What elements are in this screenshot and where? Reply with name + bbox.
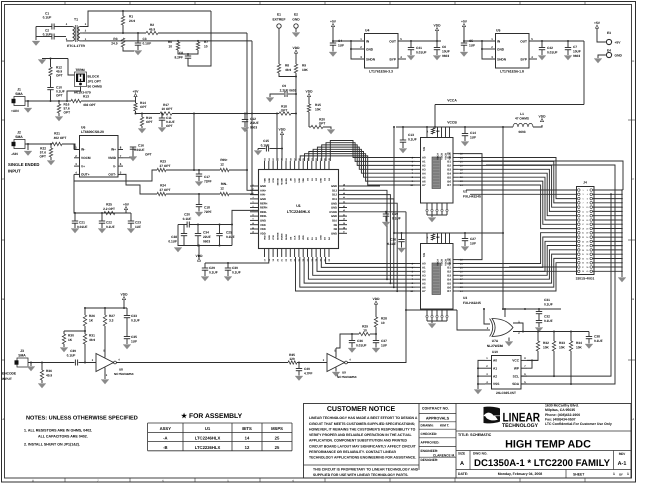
ground xyxy=(27,101,29,107)
svg-text:A0: A0 xyxy=(493,359,497,363)
wire VCCA from U5 xyxy=(583,41,585,105)
svg-text:LTC2246HLX: LTC2246HLX xyxy=(195,436,221,441)
svg-text:LTC2246HLX: LTC2246HLX xyxy=(287,210,311,214)
bus wires U1 top to U2 xyxy=(330,141,415,162)
wire J4 pin39 row xyxy=(505,270,577,272)
svg-text:50 OHMS: 50 OHMS xyxy=(88,85,103,89)
svg-text:VDD: VDD xyxy=(279,127,287,131)
wire mid rail xyxy=(136,113,161,115)
svg-text:24.9: 24.9 xyxy=(111,42,117,46)
svg-text:0.1UF: 0.1UF xyxy=(226,235,235,239)
svg-text:VDD: VDD xyxy=(264,178,267,183)
svg-text:25: 25 xyxy=(275,445,280,450)
svg-text:SMA: SMA xyxy=(18,353,26,357)
svg-text:23: 23 xyxy=(582,236,584,239)
svg-text:27: 27 xyxy=(582,245,584,248)
svg-text:38: 38 xyxy=(343,226,345,229)
svg-text:VDD: VDD xyxy=(264,235,267,240)
svg-text:0.01UF: 0.01UF xyxy=(134,148,145,152)
svg-text:1UF: 1UF xyxy=(470,242,476,246)
wire sense riser xyxy=(295,114,297,161)
svg-text:TECHNOLOGY APPLICATIONS ENGINE: TECHNOLOGY APPLICATIONS ENGINEERING FOR … xyxy=(309,456,416,460)
svg-text:U8: U8 xyxy=(119,368,123,372)
wire J4 pin3 row xyxy=(470,193,577,195)
svg-text:402 OPT: 402 OPT xyxy=(54,136,67,140)
svg-text:APPROVALS: APPROVALS xyxy=(426,417,450,421)
svg-text:VCCB: VCCB xyxy=(441,153,444,160)
svg-text:28: 28 xyxy=(586,245,588,248)
svg-text:0.1UF: 0.1UF xyxy=(594,339,603,343)
svg-text:10: 10 xyxy=(168,45,172,49)
svg-text:1K: 1K xyxy=(68,338,73,342)
svg-text:VMID: VMID xyxy=(108,156,117,160)
wire xyxy=(83,40,252,42)
wire vdd rail to xor xyxy=(503,308,561,310)
svg-text:U3: U3 xyxy=(463,296,467,300)
svg-text:OPT: OPT xyxy=(146,120,153,124)
ground xyxy=(564,56,572,61)
svg-text:SHDN: SHDN xyxy=(366,57,376,61)
wire U3 vcc rail xyxy=(394,232,503,234)
svg-text:46: 46 xyxy=(343,192,345,195)
ground xyxy=(372,348,380,353)
svg-text:C23: C23 xyxy=(135,221,141,225)
svg-text:+5V: +5V xyxy=(133,89,140,93)
wire xyxy=(464,40,495,42)
svg-text:24.9: 24.9 xyxy=(129,19,135,23)
svg-text:VCC: VCC xyxy=(512,359,519,363)
svg-text:1UF: 1UF xyxy=(338,44,344,48)
svg-text:0.1UF: 0.1UF xyxy=(544,303,553,307)
ground xyxy=(460,52,468,57)
svg-text:A: A xyxy=(2,418,4,421)
wire riser to U1 xyxy=(232,210,258,245)
svg-text:R27: R27 xyxy=(109,314,115,318)
LT logo xyxy=(484,407,501,424)
svg-text:12: 12 xyxy=(220,187,224,191)
svg-text:R23: R23 xyxy=(160,160,166,164)
svg-text:1UF: 1UF xyxy=(135,225,141,229)
svg-text:1UF: 1UF xyxy=(381,344,387,348)
svg-text:AIN+: AIN+ xyxy=(260,189,267,192)
svg-text:PERFORMANCE OR RELIABILITY. C: PERFORMANCE OR RELIABILITY. CONTACT LINE… xyxy=(309,450,397,454)
svg-text:24LC025-I/ST: 24LC025-I/ST xyxy=(496,391,516,395)
ground xyxy=(618,278,626,283)
svg-text:U5: U5 xyxy=(496,29,500,33)
svg-text:VDD: VDD xyxy=(302,235,305,240)
svg-text:27 OPT: 27 OPT xyxy=(160,188,171,192)
svg-text:IN-: IN- xyxy=(81,148,85,152)
svg-text:VDD: VDD xyxy=(539,114,547,118)
wire xyxy=(166,169,220,171)
U2 left pins A0-A7 xyxy=(415,157,420,159)
svg-text:ALL CAPACITORS ARE 0402.: ALL CAPACITORS ARE 0402. xyxy=(38,435,88,439)
svg-text:FXLH42245: FXLH42245 xyxy=(463,301,481,305)
svg-text:RIN-: RIN- xyxy=(221,182,228,186)
svg-text:C26: C26 xyxy=(390,238,396,242)
svg-text:26: 26 xyxy=(586,240,588,243)
wire trunk2 from T1 xyxy=(251,41,253,194)
svg-text:8.2PF: 8.2PF xyxy=(174,56,183,60)
svg-text:GND: GND xyxy=(298,235,301,240)
svg-text:MODE: MODE xyxy=(281,233,284,240)
svg-text:OPT: OPT xyxy=(145,153,152,157)
svg-text:GND: GND xyxy=(331,232,337,235)
svg-text:T1: T1 xyxy=(74,18,78,22)
svg-text:C9: C9 xyxy=(282,84,286,88)
svg-text:INPUT: INPUT xyxy=(2,377,12,381)
svg-text:VCCB: VCCB xyxy=(441,259,444,266)
svg-text:39: 39 xyxy=(343,222,345,225)
svg-text:C18: C18 xyxy=(204,206,210,210)
svg-text:38: 38 xyxy=(586,266,588,269)
ground xyxy=(332,372,340,377)
ground xyxy=(60,348,68,353)
svg-text:INPUT: INPUT xyxy=(8,169,21,174)
svg-text:DRAWN:: DRAWN: xyxy=(421,424,434,428)
svg-text:B7: B7 xyxy=(447,289,451,293)
svg-text:R2: R2 xyxy=(150,23,154,27)
svg-text:C36: C36 xyxy=(357,339,363,343)
wire U10 left gnd xyxy=(478,360,485,389)
ground xyxy=(32,41,40,46)
wire U6 out+ to R23 xyxy=(74,170,157,181)
svg-text:REV: REV xyxy=(619,452,626,456)
svg-text:B: B xyxy=(2,298,4,301)
svg-text:Milpitas, CA 95035: Milpitas, CA 95035 xyxy=(545,408,575,412)
svg-text:+5V: +5V xyxy=(615,40,622,44)
svg-text:12: 12 xyxy=(245,445,250,450)
svg-text:SHDN: SHDN xyxy=(497,57,507,61)
wires U1 bottom caps rail xyxy=(205,257,269,263)
svg-text:VCM: VCM xyxy=(272,178,275,183)
ground xyxy=(428,324,436,329)
xor gate U7A NL27WZ86 xyxy=(492,319,513,337)
svg-text:1UF: 1UF xyxy=(470,136,476,140)
svg-text:U6: U6 xyxy=(81,126,85,130)
svg-text:GND: GND xyxy=(331,202,337,205)
svg-text:ETC1-1TTR: ETC1-1TTR xyxy=(67,44,85,48)
svg-text:18: 18 xyxy=(586,223,588,226)
svg-text:C32: C32 xyxy=(544,315,550,319)
svg-text:R28: R28 xyxy=(381,317,387,321)
svg-text:4: 4 xyxy=(587,193,588,196)
ground xyxy=(224,277,232,282)
ground xyxy=(382,222,390,227)
wire xor outputs xyxy=(513,323,523,332)
svg-text:C25: C25 xyxy=(226,231,232,235)
ground xyxy=(27,144,29,150)
svg-text:BYP: BYP xyxy=(520,57,527,61)
svg-text:VDD: VDD xyxy=(434,23,442,27)
ground xyxy=(461,247,469,252)
svg-text:17: 17 xyxy=(582,223,584,226)
svg-text:SENSE: SENSE xyxy=(276,232,279,240)
svg-text:32: 32 xyxy=(586,253,588,256)
svg-text:C42: C42 xyxy=(547,46,553,50)
svg-text:21: 21 xyxy=(582,232,584,235)
svg-text:25: 25 xyxy=(582,240,584,243)
svg-text:0.1UF: 0.1UF xyxy=(544,319,553,323)
svg-text:A-1: A-1 xyxy=(618,461,627,467)
ground xyxy=(55,117,63,122)
svg-text:4.7PF: 4.7PF xyxy=(304,372,313,376)
svg-text:1: 1 xyxy=(582,189,583,192)
svg-text:3: 3 xyxy=(252,192,253,195)
ground xyxy=(129,157,137,162)
svg-text:D13: D13 xyxy=(332,189,337,192)
svg-text:TECHNOLOGY: TECHNOLOGY xyxy=(502,423,539,429)
svg-text:34: 34 xyxy=(586,257,588,260)
wire xyxy=(83,11,211,27)
svg-text:13: 13 xyxy=(582,215,584,218)
wire VDD trunk xyxy=(502,127,504,309)
svg-text:NL27WZ86: NL27WZ86 xyxy=(487,344,504,348)
svg-text:0.1UF: 0.1UF xyxy=(232,271,241,275)
wire xyxy=(67,87,81,102)
svg-text:SMA: SMA xyxy=(15,135,23,139)
svg-text:C40: C40 xyxy=(304,367,310,371)
svg-text:0.1UF: 0.1UF xyxy=(261,143,270,147)
wire VCCB trunk to U3 xyxy=(393,127,395,233)
svg-text:APPROVED:: APPROVED: xyxy=(421,441,440,445)
U2 right pins OE B0-B7 xyxy=(453,153,458,155)
svg-text:0603: 0603 xyxy=(518,130,525,134)
svg-text:0603: 0603 xyxy=(442,54,449,58)
svg-text:B7: B7 xyxy=(447,183,451,187)
transceiver U2 FXLH42245 xyxy=(421,138,454,204)
svg-text:48: 48 xyxy=(343,183,345,186)
wire bias rail xyxy=(85,307,127,309)
svg-text:SUPPLIED FOR USE WITH LINEAR T: SUPPLIED FOR USE WITH LINEAR TECHNOLOGY … xyxy=(313,473,408,477)
svg-text:49.9: 49.9 xyxy=(89,338,95,342)
svg-text:10K: 10K xyxy=(559,346,566,350)
ground xyxy=(134,51,142,56)
svg-text:1K: 1K xyxy=(89,319,94,323)
svg-text:BYP: BYP xyxy=(389,57,396,61)
svg-text:J4: J4 xyxy=(583,181,587,185)
svg-text:OPT: OPT xyxy=(140,105,147,109)
svg-text:SCL: SCL xyxy=(513,374,519,378)
svg-text:R33: R33 xyxy=(559,341,565,345)
svg-text:C41: C41 xyxy=(416,46,422,50)
svg-text:41: 41 xyxy=(343,213,345,216)
svg-text:E2: E2 xyxy=(294,13,298,17)
svg-text:SMA: SMA xyxy=(15,92,23,96)
ground xyxy=(174,248,182,253)
svg-text:-A: -A xyxy=(163,436,167,441)
svg-text:E1: E1 xyxy=(277,13,281,17)
svg-text:R13: R13 xyxy=(83,95,89,99)
svg-text:OF: OF xyxy=(619,472,623,476)
svg-text:10K: 10K xyxy=(576,346,583,350)
svg-text:C37: C37 xyxy=(381,339,387,343)
U1 bottom pins xyxy=(264,249,266,257)
svg-text:0.1UF: 0.1UF xyxy=(387,242,396,246)
svg-text:1UF: 1UF xyxy=(469,44,475,48)
ground xyxy=(327,130,335,135)
svg-text:RIN+: RIN+ xyxy=(220,158,227,162)
svg-text:0603: 0603 xyxy=(573,54,580,58)
svg-text:ENGINEER:: ENGINEER: xyxy=(421,449,439,453)
svg-text:1: 1 xyxy=(252,183,253,186)
svg-text:A: A xyxy=(460,461,464,467)
bus wires U2 to J4 xyxy=(458,158,577,199)
svg-text:TERM: TERM xyxy=(75,68,85,72)
svg-text:14: 14 xyxy=(245,436,250,441)
wire xor inputs xyxy=(457,310,490,330)
svg-text:C31: C31 xyxy=(544,298,550,302)
svg-text:APPLICATION. COMPONENT SUBSTI: APPLICATION. COMPONENT SUBSTITUTION AND … xyxy=(309,439,407,443)
inverter U8 NC7SVU04M5X xyxy=(96,354,114,372)
svg-text:ENCODE: ENCODE xyxy=(2,372,17,376)
svg-text:A7: A7 xyxy=(422,289,426,293)
svg-text:C17: C17 xyxy=(204,175,210,179)
svg-text:VDD: VDD xyxy=(302,178,305,183)
svg-text:LT6600CS8-20: LT6600CS8-20 xyxy=(81,130,104,134)
wire to AIN- xyxy=(229,193,258,196)
svg-text:GND: GND xyxy=(260,185,266,188)
wire J4 hook A xyxy=(482,161,623,190)
wire J4 hook B / SDA xyxy=(486,165,615,384)
bus wires U1 right down to data bus xyxy=(347,190,387,279)
svg-text:OUT+: OUT+ xyxy=(81,173,90,177)
svg-text:V+: V+ xyxy=(81,164,85,168)
svg-text:0.1UF: 0.1UF xyxy=(43,33,52,37)
bus wires U3 to J4 xyxy=(458,233,577,264)
svg-text:0.1UF: 0.1UF xyxy=(131,319,140,323)
svg-text:30: 30 xyxy=(586,249,588,252)
svg-text:A7: A7 xyxy=(422,183,426,187)
U3 left pins A0-A7 xyxy=(415,263,420,265)
svg-text:8: 8 xyxy=(252,213,253,216)
svg-text:DWG NO.: DWG NO. xyxy=(473,452,487,456)
svg-text:SHEET: SHEET xyxy=(573,472,585,476)
svg-text:MSPS: MSPS xyxy=(271,426,283,431)
svg-text:2: 2 xyxy=(252,188,253,191)
ground xyxy=(399,149,407,154)
wire riser xyxy=(193,114,195,171)
ground xyxy=(254,151,262,156)
wire xyxy=(166,193,220,195)
svg-text:C21: C21 xyxy=(79,221,85,225)
svg-text:VCCA: VCCA xyxy=(437,259,440,266)
svg-text:R6: R6 xyxy=(168,40,172,44)
svg-text:42: 42 xyxy=(343,209,345,212)
ground xor xyxy=(508,338,510,342)
svg-text:11: 11 xyxy=(252,226,254,229)
wire xor top vcc xyxy=(504,309,506,317)
svg-text:0.1UF: 0.1UF xyxy=(168,240,177,244)
wire cap ladder xyxy=(178,225,232,246)
svg-text:10K: 10K xyxy=(302,68,309,72)
svg-text:BLOCK: BLOCK xyxy=(88,75,100,79)
svg-text:VDD: VDD xyxy=(260,228,266,231)
svg-text:2: 2 xyxy=(587,189,588,192)
ground xyxy=(47,161,55,166)
svg-text:BITS: BITS xyxy=(242,426,252,431)
svg-text:22: 22 xyxy=(586,232,588,235)
svg-text:0603: 0603 xyxy=(250,126,257,130)
svg-text:3.3: 3.3 xyxy=(109,319,114,323)
svg-text:2.2UF: 2.2UF xyxy=(250,121,259,125)
svg-text:+5V: +5V xyxy=(330,19,337,23)
wire J4 pin37 row xyxy=(509,266,577,268)
wire xyxy=(278,28,280,64)
ground xyxy=(398,248,406,253)
wire riser2 xyxy=(276,114,278,161)
svg-text:DC1350A-1 * LTC2200 FAMILY: DC1350A-1 * LTC2200 FAMILY xyxy=(474,458,611,469)
svg-text:WP: WP xyxy=(514,367,520,371)
svg-text:R36: R36 xyxy=(46,369,52,373)
wire xyxy=(297,362,327,364)
svg-text:0.1UF: 0.1UF xyxy=(143,42,152,46)
svg-text:GND: GND xyxy=(260,198,266,201)
svg-text:C22: C22 xyxy=(106,221,112,225)
svg-text:GND: GND xyxy=(298,178,301,183)
wire encode to R35 xyxy=(116,362,288,364)
wire xyxy=(335,348,337,358)
svg-text:U1: U1 xyxy=(205,426,211,431)
svg-text:R24: R24 xyxy=(160,184,166,188)
svg-text:+5V: +5V xyxy=(594,21,601,25)
ground xyxy=(329,52,337,57)
svg-text:GND: GND xyxy=(331,215,337,218)
svg-text:LTC Confidential-For Customer: LTC Confidential-For Customer Use Only xyxy=(545,422,612,426)
svg-text:49.9: 49.9 xyxy=(285,68,291,72)
svg-text:OPT: OPT xyxy=(56,94,63,98)
svg-text:C8: C8 xyxy=(179,51,183,55)
svg-text:35: 35 xyxy=(582,262,584,265)
ground xyxy=(123,345,131,350)
svg-text:72PF: 72PF xyxy=(204,180,212,184)
svg-text:OPT: OPT xyxy=(166,124,173,128)
svg-text:E3: E3 xyxy=(607,31,611,35)
svg-text:TITLE: SCHEMATIC: TITLE: SCHEMATIC xyxy=(458,433,492,437)
svg-text:7: 7 xyxy=(582,202,583,205)
wire xyxy=(172,113,279,115)
ground xyxy=(535,328,543,333)
svg-text:10: 10 xyxy=(586,206,588,209)
svg-text:0.1UF: 0.1UF xyxy=(209,271,218,275)
svg-text:1. ALL RESISTORS ARE IN OHMS,: 1. ALL RESISTORS ARE IN OHMS, 0402. xyxy=(24,429,92,433)
svg-text:LT1761ES6-3.3: LT1761ES6-3.3 xyxy=(369,70,393,74)
wire xyxy=(158,32,247,34)
svg-text:VCCA: VCCA xyxy=(437,153,440,160)
wire to AIN+ xyxy=(229,170,258,190)
svg-text:R25: R25 xyxy=(106,203,112,207)
svg-text:C29: C29 xyxy=(209,266,215,270)
svg-text:C34: C34 xyxy=(203,231,209,235)
svg-text:CUSTOMER NOTICE: CUSTOMER NOTICE xyxy=(327,406,396,413)
wire xyxy=(83,32,146,34)
svg-text:DESIGNER:: DESIGNER: xyxy=(421,458,439,462)
svg-text:REFL: REFL xyxy=(260,211,267,214)
svg-text:16: 16 xyxy=(586,219,588,222)
svg-text:12: 12 xyxy=(220,163,224,167)
title block outline xyxy=(304,404,632,479)
svg-text:Monday, February 04, 2008: Monday, February 04, 2008 xyxy=(498,472,543,476)
U3 bottom pins xyxy=(426,309,428,315)
ground xyxy=(295,376,303,381)
wire xyxy=(62,144,79,150)
svg-text:R32: R32 xyxy=(543,341,549,345)
wire xyxy=(42,58,68,60)
svg-text:GND: GND xyxy=(319,235,322,240)
svg-text:D11: D11 xyxy=(332,198,337,201)
svg-text:U4: U4 xyxy=(365,29,369,33)
svg-text:C35: C35 xyxy=(131,335,137,339)
